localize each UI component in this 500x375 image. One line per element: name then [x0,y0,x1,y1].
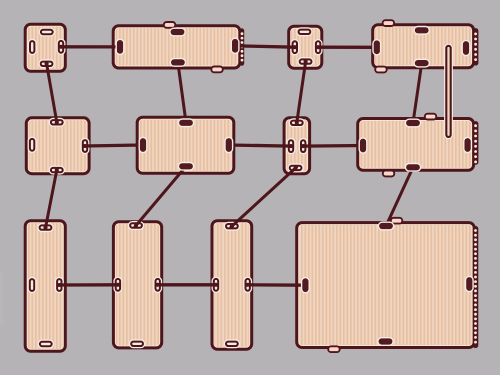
port U7 bottom [287,163,303,172]
port U12 top-edge [391,218,403,224]
wire U2.right-U3.left [234,46,296,47]
junction U5.top [55,120,59,124]
junction U3.bottom [304,60,308,64]
module U11 body [212,221,252,350]
port U3 top [296,27,312,36]
bus bar U4-U8 [444,44,453,140]
module U12 body [297,223,475,348]
port U1 top [39,28,55,37]
junction U5.right [83,144,87,148]
module U1 body [25,24,65,71]
port U3 bottom [297,57,313,66]
wire U3.right-U4.left [317,46,378,49]
port U12 right-inner [465,276,474,293]
wire U5.bottom-U9.top [45,169,57,229]
wire U1.bottom-U5.top [46,63,57,124]
port U12 bottom-inner [377,337,394,346]
port U5 left [28,137,37,153]
wire U5.right-U6.left [84,145,144,146]
port U10 right [153,277,162,293]
connector strip U8 right [473,121,479,165]
wire U10.right-U11.left [157,283,218,286]
wire U8.bottom-U12.top [386,166,414,227]
junction U11.right [246,283,250,287]
junction U3.right [316,45,320,49]
port U1 right [57,39,66,55]
wire U3.bottom-U7.top [297,60,306,124]
junction U10.right [156,283,160,287]
wire U4.bottom-U8.top [413,62,422,124]
port U9 top [37,223,53,232]
terminal U8 top [405,119,422,128]
wire U7.bottom-U11.top [231,167,297,227]
junction U1.bottom [45,62,49,66]
junction U7.left [289,144,293,148]
terminal U8 left [359,137,368,154]
port U12 bottom-edge [328,346,340,352]
port U7 left [287,138,296,154]
wire U6.bottom-U10.top [135,165,187,226]
port U4 right-inner [462,40,471,57]
wire U6.right-U7.left [228,145,293,146]
port U2 top-inner [169,28,186,37]
port U9 bottom [38,340,54,349]
wire U2.bottom-U6.top [178,61,187,124]
module U6 body [137,117,234,173]
connector strip U2 right [240,28,244,65]
terminal U2 bottom [170,58,187,67]
port U8 top-edge [425,114,437,120]
wire U7.right-U8.left [302,144,364,148]
terminal U8 bottom [405,163,422,172]
module U3 body [289,26,322,68]
port U4 top-inner [413,26,430,35]
port U9 left [28,277,37,293]
terminal U4 bottom [413,59,430,68]
port U8 bottom-edge [383,171,395,177]
port U1 left [28,39,37,55]
junction U1.right [59,45,63,49]
junction U5.bottom [55,168,59,172]
module U8 body [358,119,474,171]
connector strip U12 right [473,226,479,348]
port U3 right [314,39,323,55]
port U11 right [243,277,252,293]
port U2 bottom-edge [211,67,223,73]
port U11 left [212,277,221,293]
module U9 body [25,221,65,352]
wire U11.right-U12.left [247,283,307,287]
junction U11.top [230,224,234,228]
port U5 top [49,118,65,127]
junction U11.left [214,283,218,287]
port U9 right [55,277,64,293]
port U10 top [128,221,144,230]
module U7 body [284,118,310,174]
module U10 body [113,222,161,348]
port U10 bottom [129,339,145,348]
port U4 bottom-edge [375,67,387,73]
junction U10.left [116,283,120,287]
terminal U6 right [224,137,233,154]
wire U9.right-U10.left [58,283,119,287]
port U2 top-edge [164,22,176,28]
module U4 body [373,25,474,68]
terminal U2 left [116,39,125,56]
junction U7.top [295,121,299,125]
port U8 right-inner [463,137,472,154]
junction U7.right [301,144,305,148]
junction U9.top [43,226,47,230]
module U5 body [26,118,89,174]
terminal U4 left [372,39,381,56]
module U2 body [113,26,240,68]
terminal U12 top [378,222,395,231]
port U4 top-edge [383,20,395,26]
port U7 top [289,118,305,127]
terminal U2 right [231,38,240,55]
faint edge artifact [0,272,4,326]
junction U7.bottom [294,166,298,170]
port U5 right [81,138,90,154]
terminal U6 left [139,137,148,154]
connector strip U4 right [473,28,479,65]
port U7 right [299,138,308,154]
wire U1.right-U2.left [60,45,121,48]
port U1 bottom [38,59,54,68]
terminal U12 left [301,277,310,294]
terminal U6 top [178,118,195,127]
port U11 bottom [224,339,240,348]
terminal U6 bottom [178,162,195,171]
port U3 left [290,39,299,55]
junction U9.right [57,283,61,287]
port U5 bottom [49,166,65,175]
junction U3.left [293,45,297,49]
port U10 left [113,277,122,293]
junction U10.top [134,223,138,227]
port U11 top [224,222,240,231]
